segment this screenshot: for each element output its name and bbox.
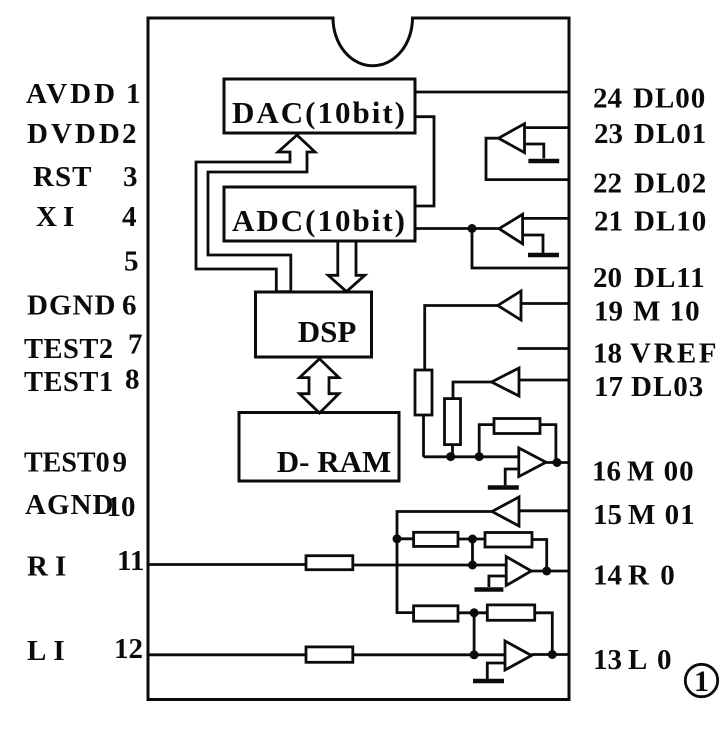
svg-text:TEST0: TEST0: [24, 448, 110, 479]
resistor R2: [445, 399, 461, 445]
svg-text:16: 16: [592, 456, 621, 488]
svg-text:M 01: M 01: [628, 499, 696, 531]
svg-text:19: 19: [594, 296, 623, 328]
wire U7 out down the left rail: [397, 512, 492, 613]
wire R4/R5 tap down to RI line: [471, 539, 474, 565]
wire R6 to op-amp U8: [353, 564, 506, 567]
buffer U3 (pin21 input): [499, 214, 523, 244]
wire U9 to pin13: [532, 653, 569, 656]
figure number circled 1: [685, 664, 717, 698]
wire R7/R8 tap down to LI line: [473, 613, 476, 655]
resistor R4: [414, 532, 458, 546]
svg-text:21: 21: [594, 206, 623, 238]
wire R7 to R8: [458, 611, 487, 614]
buffer U4 (pin19 input): [498, 291, 521, 320]
wire U2 out to pin22: [486, 138, 569, 179]
svg-text:RST: RST: [33, 161, 92, 193]
svg-text:5: 5: [124, 246, 139, 278]
svg-text:8: 8: [125, 364, 140, 396]
wire R5 to pin14 node: [532, 540, 547, 572]
svg-text:2: 2: [122, 118, 137, 150]
RI input wire pin11: [148, 563, 306, 566]
svg-text:AGND: AGND: [25, 489, 114, 521]
svg-text:22: 22: [593, 168, 622, 200]
svg-text:LI: LI: [27, 635, 72, 667]
resistor R5: [485, 533, 532, 548]
resistor R9: [306, 647, 353, 662]
svg-text:18: 18: [593, 338, 622, 370]
IC package outline U1 with pin-1 notch: [148, 18, 569, 700]
switch symbol S9: [487, 663, 505, 679]
resistor R8: [487, 605, 534, 620]
svg-text:23: 23: [594, 118, 623, 150]
svg-text:VREF: VREF: [630, 338, 719, 370]
resistor R7: [414, 606, 458, 621]
wire pin23 to U2: [525, 126, 569, 129]
wire U4 out to resistor R1: [425, 306, 498, 371]
switch symbol S2: [525, 144, 544, 158]
wire DAC to pin24: [415, 91, 569, 94]
wire R1 to node: [422, 415, 425, 457]
svg-text:DL00: DL00: [633, 83, 706, 115]
wire pin21 to U3: [523, 217, 569, 220]
svg-text:M 00: M 00: [627, 456, 695, 488]
wire U5 out to resistor R2: [453, 382, 492, 399]
svg-text:24: 24: [593, 83, 622, 115]
switch symbol S6: [505, 469, 519, 485]
svg-text:6: 6: [122, 290, 137, 322]
svg-text:DL10: DL10: [634, 206, 707, 238]
svg-text:AVDD: AVDD: [26, 78, 118, 110]
resistor R1: [415, 370, 432, 415]
buffer U5 (pin17 input): [492, 368, 519, 396]
svg-text:20: 20: [593, 262, 622, 294]
D-RAM block: [239, 413, 399, 482]
switch symbol S8: [489, 576, 506, 587]
wire pin17 to U5: [519, 379, 569, 382]
wire U6 to pin16: [546, 461, 569, 464]
wire R2 to node: [451, 445, 454, 457]
svg-text:9: 9: [113, 447, 128, 479]
ADC block: [224, 187, 415, 241]
DAC block: [224, 79, 415, 133]
LI input wire pin12: [148, 653, 306, 656]
svg-text:XI: XI: [36, 201, 80, 233]
buffer U7 (pin15 input): [492, 497, 519, 526]
op-amp U6 (pin16 output): [519, 448, 546, 477]
svg-text:TEST1: TEST1: [24, 367, 114, 398]
svg-text:L 0: L 0: [628, 644, 674, 676]
svg-text:11: 11: [117, 545, 144, 577]
bus arrow DSP to DAC (hollow): [196, 135, 315, 292]
svg-text:M 10: M 10: [633, 296, 701, 328]
wire U8 to pin14: [531, 570, 568, 573]
wire R9 to op-amp U9: [353, 653, 505, 656]
svg-text:10: 10: [107, 491, 136, 523]
switch symbol S3: [523, 235, 543, 253]
svg-text:15: 15: [593, 499, 622, 531]
wire R8 to pin13 node: [535, 613, 553, 655]
wire rail to R4: [397, 537, 414, 540]
svg-text:14: 14: [593, 560, 622, 592]
svg-text:DL11: DL11: [634, 262, 706, 294]
op-amp U9 (pin13 L0): [505, 641, 532, 670]
junction dot: [468, 224, 477, 233]
svg-text:7: 7: [128, 329, 143, 361]
svg-text:4: 4: [122, 201, 137, 233]
svg-text:17: 17: [594, 371, 623, 403]
svg-text:ADC(10bit): ADC(10bit): [232, 203, 407, 238]
svg-text:TEST2: TEST2: [24, 334, 114, 365]
bus arrow ADC to DSP (hollow): [328, 243, 365, 292]
svg-text:12: 12: [114, 633, 143, 665]
svg-text:13: 13: [593, 644, 622, 676]
wire pin15 to U7: [519, 509, 569, 512]
svg-text:DVDD: DVDD: [27, 118, 123, 150]
feedback resistor R3: [479, 425, 494, 457]
wire ADC to U3 and pin20 branch: [415, 227, 499, 230]
node wire into op-amp U6: [424, 455, 519, 458]
buffer U2 (pin23 input): [499, 124, 525, 153]
svg-text:DL01: DL01: [634, 118, 707, 150]
wire pin19 to U4: [521, 302, 569, 305]
svg-text:D- RAM: D- RAM: [277, 444, 392, 479]
svg-text:3: 3: [123, 161, 138, 193]
svg-text:DGND: DGND: [27, 290, 116, 322]
resistor R6: [306, 556, 353, 570]
svg-text:DAC(10bit): DAC(10bit): [232, 95, 407, 130]
svg-text:DL03: DL03: [631, 371, 704, 403]
svg-text:1: 1: [694, 665, 709, 698]
DSP block: [256, 292, 372, 357]
wire DAC to ADC right loop: [415, 117, 434, 206]
svg-text:DSP: DSP: [298, 314, 357, 349]
svg-text:DL02: DL02: [634, 168, 707, 200]
VREF stub wire pin18: [518, 347, 569, 350]
bus arrow DSP to D-RAM (hollow, double headed): [300, 359, 339, 413]
svg-text:1: 1: [126, 78, 141, 110]
wire R4 to R5: [458, 538, 485, 541]
svg-text:R 0: R 0: [628, 560, 677, 592]
svg-text:RI: RI: [27, 551, 73, 583]
op-amp U8 (pin14 R0): [506, 557, 531, 586]
